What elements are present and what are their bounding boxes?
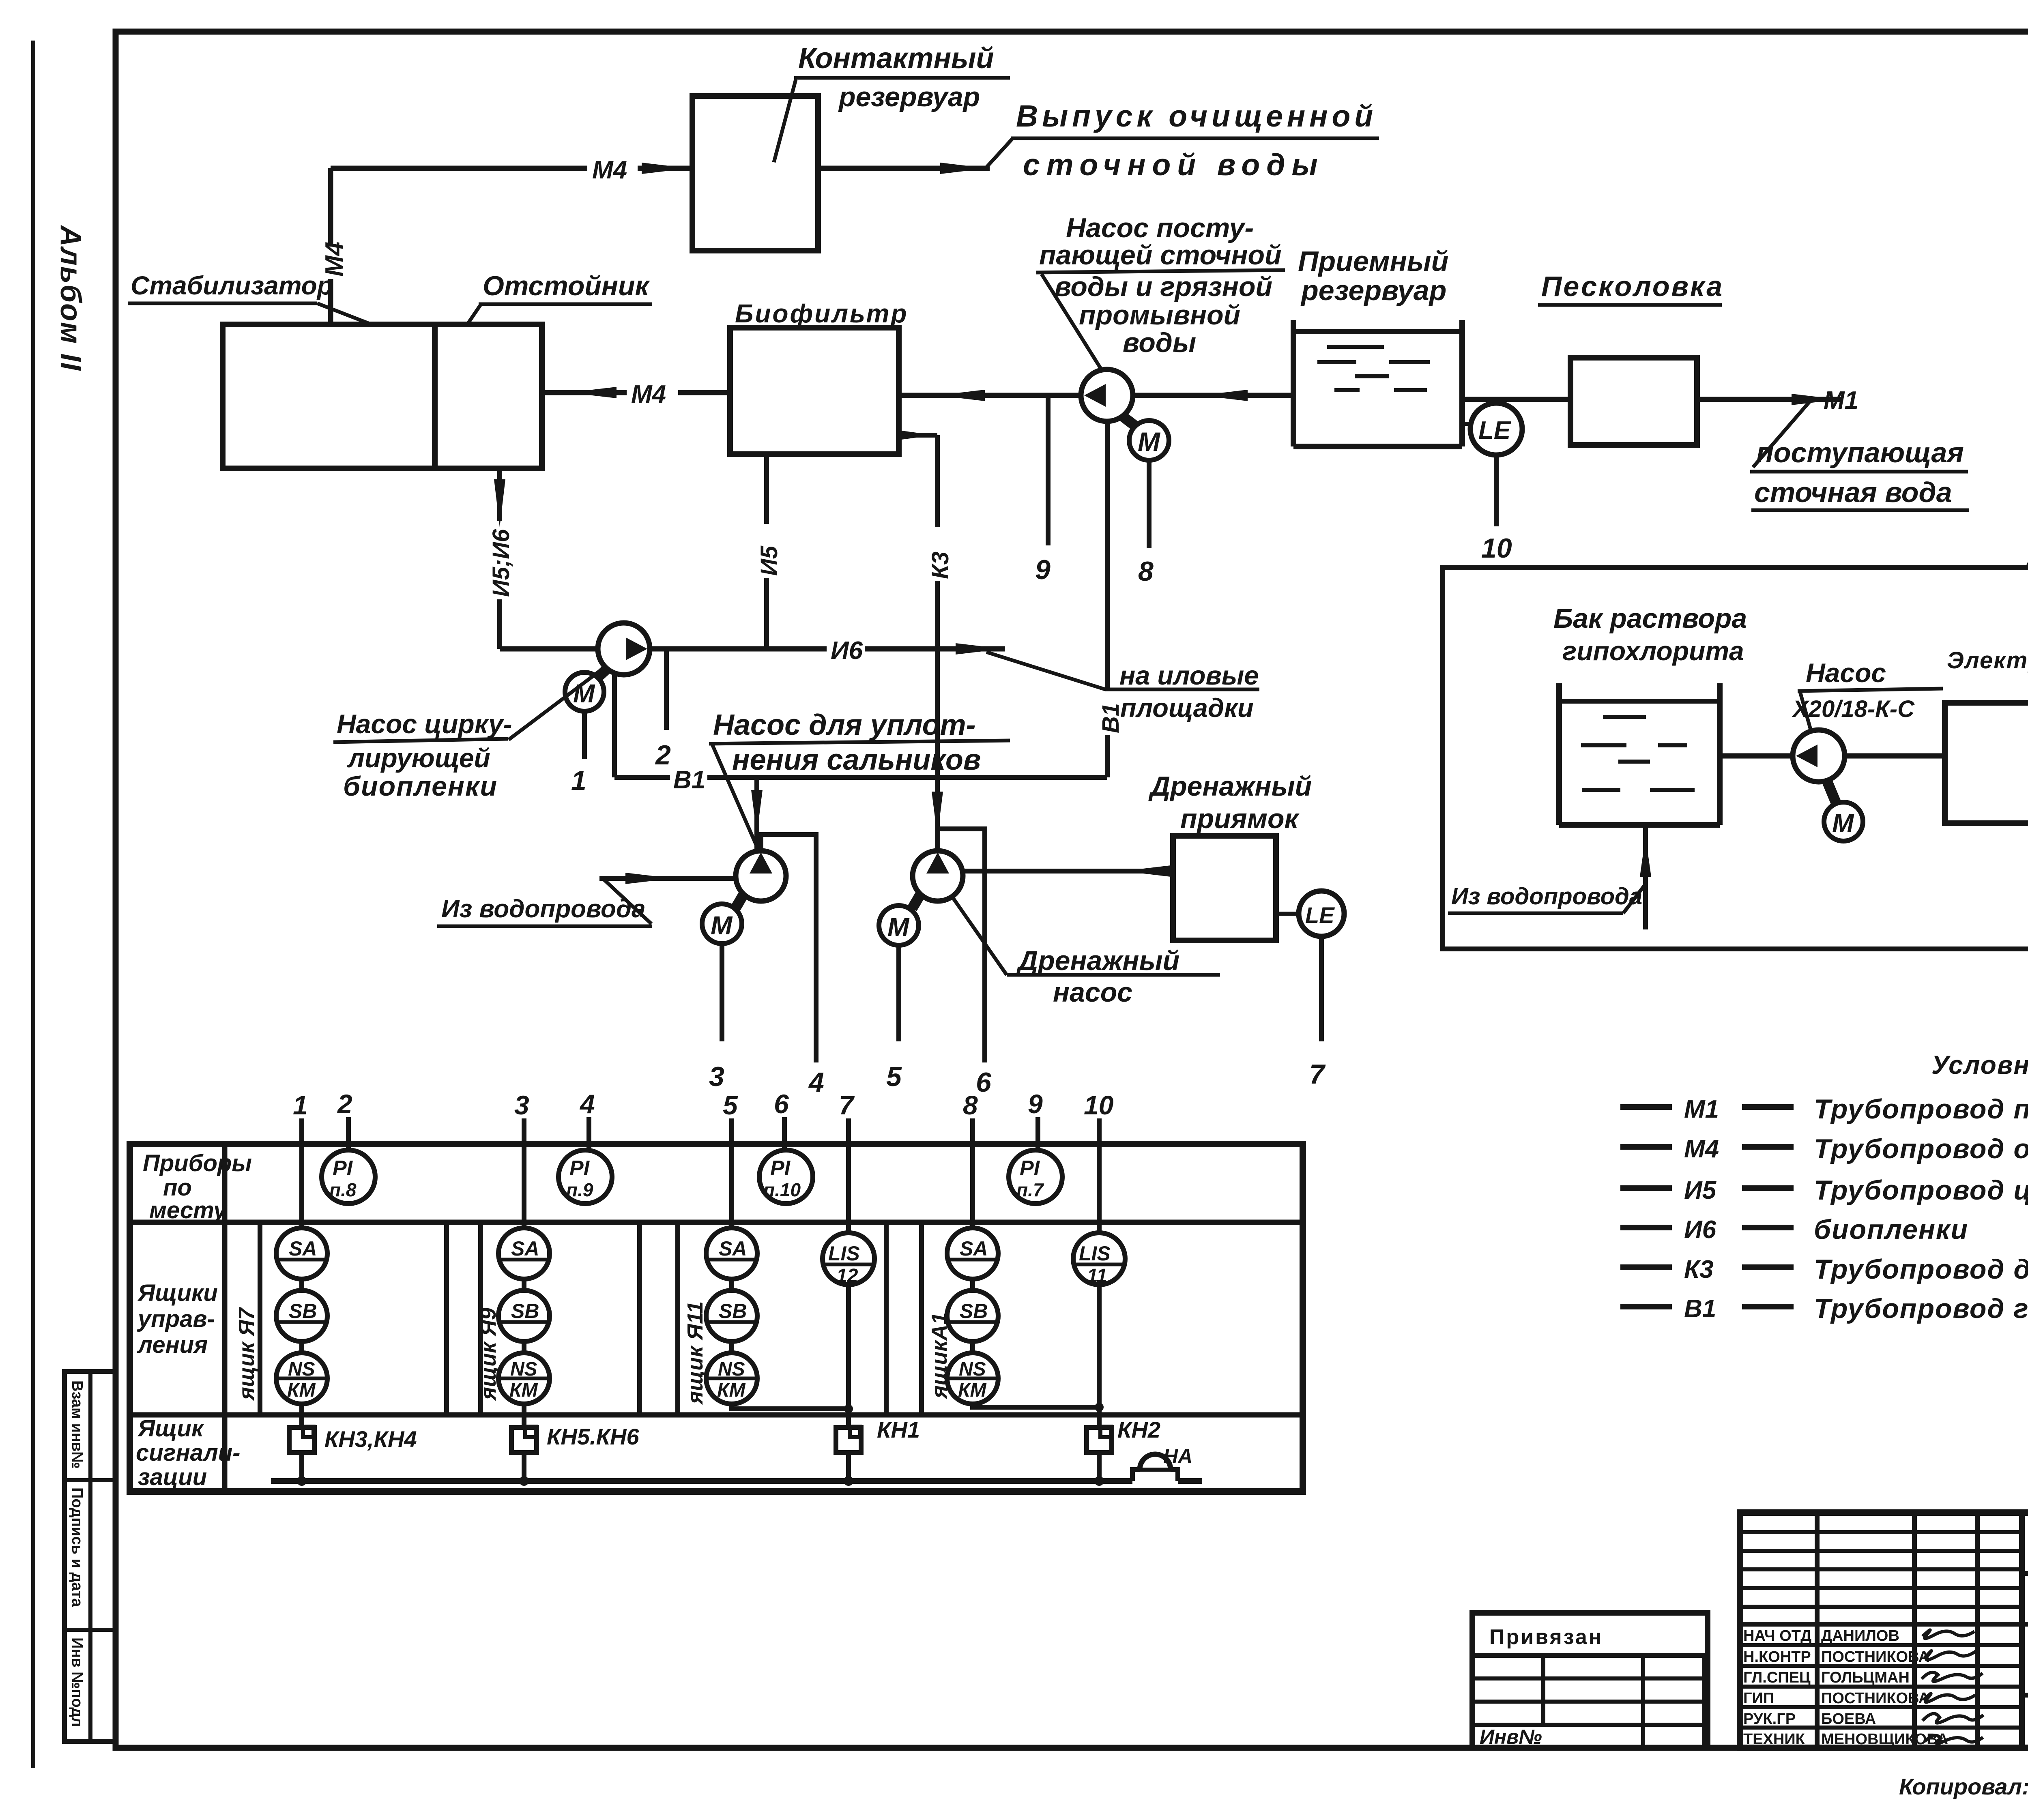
alarm relay box КН3,КН4: [289, 1427, 314, 1453]
label: на иловые площадки: [986, 652, 1105, 689]
wire biofilter to pump: [899, 393, 1081, 398]
leader to settler: [467, 304, 481, 324]
svg-text:Песколовка: Песколовка: [1541, 270, 1724, 302]
svg-text:NS: NS: [959, 1359, 986, 1380]
svg-text:Взам инв№: Взам инв№: [69, 1380, 86, 1469]
wire 1 from motor of pump N2: [582, 711, 587, 759]
svg-text:В1: В1: [1098, 703, 1124, 733]
svg-text:Дренажный: Дренажный: [1016, 945, 1179, 976]
svg-text:3: 3: [709, 1061, 724, 1092]
shaft pump N1 to motor: [1122, 416, 1136, 427]
svg-text:п.7: п.7: [1016, 1179, 1044, 1200]
svg-text:К3: К3: [1684, 1256, 1714, 1283]
level sensor LE at drainage pit: [1276, 912, 1299, 916]
svg-text:И6: И6: [831, 637, 863, 665]
svg-text:NS: NS: [510, 1359, 537, 1380]
svg-text:Бак раствора: Бак раствора: [1553, 603, 1747, 634]
wire 9 stub from main line: [1046, 395, 1051, 545]
pump N5: X20/18-K-C pump: [1793, 730, 1845, 782]
svg-text:КН2: КН2: [1117, 1417, 1160, 1442]
svg-text:SA: SA: [511, 1237, 539, 1260]
svg-text:КМ: КМ: [717, 1380, 746, 1401]
svg-text:Дренажный: Дренажный: [1148, 771, 1312, 802]
svg-text:6: 6: [774, 1089, 789, 1119]
divider stabilizer/settler: [432, 324, 438, 468]
leader to stabilizer: [317, 303, 372, 324]
svg-text:Контактный: Контактный: [798, 42, 994, 75]
instrument LIS 11: [1073, 1233, 1125, 1285]
svg-text:НА: НА: [1163, 1445, 1192, 1468]
svg-text:нения сальников: нения сальников: [732, 744, 981, 776]
alarm relay box КН1: [836, 1427, 861, 1453]
svg-text:Условные обозначения: Условные обозначения: [1931, 1050, 2028, 1080]
svg-text:SA: SA: [960, 1237, 988, 1260]
svg-text:воды и грязной: воды и грязной: [1055, 271, 1272, 302]
svg-text:SA: SA: [289, 1237, 317, 1260]
svg-text:И5: И5: [1684, 1176, 1717, 1204]
svg-text:КН1: КН1: [877, 1417, 920, 1442]
svg-text:насос: насос: [1053, 977, 1132, 1008]
svg-text:М4: М4: [1684, 1135, 1719, 1163]
tank: sand trap (peskolovka): [1570, 358, 1697, 445]
wire M1 inlet: [1697, 397, 1841, 402]
svg-text:КМ: КМ: [958, 1380, 987, 1401]
alarm relay box КН2: [1087, 1427, 1112, 1453]
legend row И5: [1620, 1185, 1672, 1191]
node row: wires 1..10 into table: [293, 1089, 1114, 1233]
signatures squiggles: [1922, 1630, 1983, 1743]
leader to pump N2: [509, 670, 601, 740]
svg-text:биопленки: биопленки: [1814, 1214, 1968, 1245]
svg-text:М: М: [887, 912, 910, 942]
control chain SA/SB/NS at x=1292: [498, 1228, 550, 1404]
wire 4 loop from pump N3 top: [761, 835, 816, 1062]
svg-text:М: М: [711, 911, 733, 940]
instrument PI p.9: [559, 1150, 612, 1204]
wire 5 from motor of pump N4: [896, 946, 901, 1041]
svg-text:Приборы: Приборы: [143, 1150, 252, 1176]
motor M of pump N5: [1824, 802, 1863, 841]
tank: drainage pit: [1173, 836, 1276, 940]
svg-text:ящик Я11: ящик Я11: [683, 1301, 707, 1405]
svg-text:Н.КОНТР: Н.КОНТР: [1743, 1648, 1811, 1665]
svg-text:7: 7: [839, 1090, 855, 1120]
svg-text:М: М: [1832, 809, 1854, 838]
svg-text:площадки: площадки: [1120, 693, 1254, 723]
svg-text:п.8: п.8: [329, 1179, 357, 1200]
svg-text:SB: SB: [289, 1300, 317, 1322]
svg-text:п.9: п.9: [566, 1179, 593, 1200]
wire К3 vertical: [935, 435, 940, 527]
tank: receiving reservoir: [1293, 320, 1462, 446]
electrolysis unit enclosure: [1443, 568, 2028, 949]
svg-text:пающей сточной: пающей сточной: [1039, 240, 1282, 270]
svg-text:КМ: КМ: [287, 1380, 316, 1401]
cabinet box Я9: [478, 1222, 483, 1415]
svg-text:Из водопровода: Из водопровода: [1451, 883, 1642, 910]
stubs boxes to bus: [299, 1453, 304, 1481]
svg-text:4: 4: [808, 1067, 824, 1098]
wire Я7 chain to alarm box: [299, 1404, 304, 1427]
svg-text:И5;И6: И5;И6: [488, 529, 514, 597]
svg-text:Альбом II: Альбом II: [54, 225, 87, 371]
wire К3 stub from biofilter: [899, 433, 937, 438]
svg-text:Насос цирку-: Насос цирку-: [337, 709, 512, 739]
motor M of pump N4: [879, 906, 919, 945]
svg-text:4: 4: [579, 1089, 595, 1119]
instrument PI p.10: [759, 1150, 813, 1204]
svg-text:PI: PI: [569, 1157, 590, 1180]
svg-text:гипохлорита: гипохлорита: [1562, 636, 1744, 666]
tank: stabilizer + settler combined: [223, 324, 542, 468]
svg-text:12: 12: [836, 1265, 858, 1287]
svg-text:Насос посту-: Насос посту-: [1066, 212, 1254, 243]
svg-text:резервуар: резервуар: [838, 82, 980, 112]
legend row М4: [1620, 1144, 1672, 1150]
svg-text:ГЛ.СПЕЦ: ГЛ.СПЕЦ: [1743, 1669, 1811, 1686]
svg-text:В1: В1: [1684, 1295, 1716, 1323]
electrolyzer box: [1945, 703, 2028, 823]
tank: hypochlorite solution tank: [1559, 683, 1720, 825]
pump N3: gland sealing pump: [736, 851, 786, 901]
svg-text:биопленки: биопленки: [343, 771, 498, 802]
svg-text:ДАНИЛОВ: ДАНИЛОВ: [1821, 1627, 1899, 1644]
svg-text:Стабилизатор: Стабилизатор: [131, 271, 333, 300]
svg-text:ПОСТНИКОВА: ПОСТНИКОВА: [1821, 1690, 1929, 1707]
wire receiving tank to sand trap: [1462, 397, 1570, 402]
svg-text:LE: LE: [1478, 416, 1511, 444]
svg-text:Привязан: Привязан: [1489, 1625, 1603, 1649]
level sensor LE at receiving reservoir: [1462, 422, 1472, 426]
wire NS KM А1 to LIS11 drop: [973, 1404, 1099, 1407]
leader to contact reservoir: [774, 79, 796, 162]
label: Дренажный насос: [952, 897, 1007, 975]
svg-text:сточная вода: сточная вода: [1754, 476, 1952, 508]
leader to pump N3: [712, 745, 758, 848]
legend row И6: [1620, 1225, 1672, 1230]
control chain SA/SB/NS at x=1804: [706, 1228, 757, 1404]
tank: contact reservoir: [692, 96, 818, 251]
svg-text:LIS: LIS: [828, 1242, 860, 1265]
arrow outlet: [940, 163, 988, 174]
svg-text:поступающая: поступающая: [1756, 437, 1964, 468]
svg-text:РУК.ГР: РУК.ГР: [1743, 1711, 1796, 1728]
svg-text:9: 9: [1035, 554, 1051, 585]
svg-text:Биофильтр: Биофильтр: [735, 299, 908, 328]
shaft pump N2 to motor: [598, 669, 607, 677]
svg-text:11: 11: [1087, 1265, 1107, 1287]
svg-text:Инв №подл: Инв №подл: [69, 1638, 86, 1727]
title block outer: [1740, 1513, 2028, 1748]
wire pump N5 to electrolyzer: [1845, 753, 1945, 759]
instrument PI p.8: [322, 1150, 375, 1204]
svg-text:2: 2: [655, 740, 671, 770]
cabinet box Я11: [675, 1222, 680, 1415]
shaft pump N3 to motor: [735, 895, 743, 908]
svg-text:2: 2: [337, 1089, 352, 1119]
svg-text:PI: PI: [770, 1157, 791, 1180]
svg-text:И5: И5: [756, 545, 782, 576]
svg-text:сточной воды: сточной воды: [1023, 148, 1324, 182]
wire 3 from motor of pump N3: [720, 944, 724, 1041]
svg-text:БОЕВА: БОЕВА: [1821, 1711, 1876, 1728]
label: поступающая сточная вода: [1753, 401, 1810, 467]
cabinet box Я7: [258, 1222, 262, 1415]
wire В1: from pump N2 down and to main pump riser: [612, 675, 617, 777]
svg-text:Трубопровод грязной промывно: Трубопровод грязной промывной воды: [1814, 1293, 2028, 1324]
wire Я9 chain to alarm box: [522, 1404, 526, 1427]
arrow И6: [956, 643, 1003, 655]
svg-text:6: 6: [976, 1067, 992, 1098]
svg-text:SB: SB: [719, 1300, 747, 1322]
svg-text:КН5.КН6: КН5.КН6: [547, 1424, 639, 1449]
svg-text:И6: И6: [1684, 1216, 1716, 1244]
outer paper edge left: [31, 41, 35, 1768]
svg-text:ГОЛЬЦМАН: ГОЛЬЦМАН: [1821, 1669, 1910, 1686]
wire M4 top horizontal: [331, 166, 587, 171]
svg-text:Инв№: Инв№: [1480, 1726, 1542, 1748]
leader to pump N1: [1042, 274, 1102, 370]
motor M of pump N1: [1129, 421, 1169, 460]
stamp column box: [64, 1371, 116, 1741]
svg-text:ящик Я7: ящик Я7: [234, 1307, 259, 1401]
svg-text:NS: NS: [288, 1359, 315, 1380]
svg-text:9: 9: [1028, 1089, 1043, 1119]
wire: treated water outlet: [818, 166, 990, 171]
svg-text:сигнали-: сигнали-: [136, 1440, 240, 1466]
svg-text:PI: PI: [333, 1157, 353, 1180]
wire tank to pump N5: [1720, 753, 1793, 759]
svg-text:5: 5: [723, 1090, 738, 1120]
wire pump N1 to receiving tank: [1132, 393, 1293, 398]
pipe: из водопровода to pump N3: [599, 876, 736, 881]
svg-text:Трубопровод циркулирующей: Трубопровод циркулирующей: [1814, 1175, 2028, 1206]
table grid: [130, 1144, 1303, 1492]
arrow toward pump N1: [1200, 390, 1248, 401]
shaft pump N4 to motor: [912, 895, 920, 908]
svg-text:п.10: п.10: [763, 1179, 801, 1200]
control chain SA/SB/NS at x=744: [276, 1228, 327, 1404]
svg-text:резервуар: резервуар: [1300, 275, 1446, 306]
instrument LIS 12: [823, 1233, 874, 1285]
title block small rows left: [1740, 1513, 2028, 1748]
wire LIS11 down: [1097, 1285, 1102, 1427]
legend row К3: [1620, 1264, 1672, 1270]
svg-text:PI: PI: [1020, 1157, 1040, 1180]
svg-text:Трубопровод дренажных вод: Трубопровод дренажных вод: [1814, 1254, 2028, 1285]
wire 10 from LE: [1494, 455, 1499, 526]
cabinet box А1: [919, 1222, 924, 1415]
leader to outlet wire: [984, 138, 1013, 170]
svg-text:Насос: Насос: [1806, 658, 1886, 688]
svg-text:промывной: промывной: [1079, 300, 1240, 331]
pipe: water supply to tank: [1643, 825, 1648, 929]
instrument PI p.7: [1009, 1150, 1062, 1204]
wire 6 loop from pump N4 top: [938, 829, 985, 1062]
svg-text:10: 10: [1481, 533, 1512, 564]
alarm relay box КН5,КН6: [511, 1427, 537, 1453]
privyazan box: [1472, 1613, 1708, 1748]
svg-text:10: 10: [1084, 1090, 1114, 1120]
svg-text:лирующей: лирующей: [347, 743, 490, 773]
svg-text:Трубопровод поступающей сточ: Трубопровод поступающей сточной воды: [1814, 1094, 2028, 1125]
svg-text:Подпись и дата: Подпись и дата: [69, 1487, 86, 1607]
svg-text:1: 1: [293, 1090, 308, 1120]
svg-text:8: 8: [963, 1090, 978, 1120]
svg-text:зации: зации: [138, 1464, 207, 1490]
wire M4 into settler: [542, 390, 627, 395]
tank: biofilter: [730, 328, 899, 454]
svg-text:SB: SB: [960, 1300, 988, 1322]
svg-text:Копировал: Коршунова: Копировал: Коршунова: [1899, 1774, 2028, 1799]
svg-text:Отстойник: Отстойник: [483, 270, 651, 301]
svg-text:воды: воды: [1123, 327, 1196, 358]
svg-text:управ-: управ-: [137, 1306, 215, 1332]
svg-text:LIS: LIS: [1079, 1242, 1111, 1265]
arrow into contact reservoir: [642, 163, 690, 174]
svg-text:Выпуск очищенной: Выпуск очищенной: [1016, 99, 1377, 133]
svg-text:ТЕХНИК: ТЕХНИК: [1743, 1731, 1805, 1748]
arrow M1: [1792, 394, 1839, 405]
svg-text:Из водопровода: Из водопровода: [441, 895, 646, 923]
svg-text:месту: месту: [149, 1197, 228, 1223]
svg-text:Ящики: Ящики: [137, 1280, 218, 1306]
wire 2 stub from И6: [664, 649, 669, 730]
svg-text:НАЧ ОТД: НАЧ ОТД: [1743, 1627, 1811, 1644]
wire В1 drop to gland pump: [754, 777, 759, 851]
svg-text:КМ: КМ: [509, 1380, 538, 1401]
svg-text:М4: М4: [592, 156, 627, 184]
svg-text:ПОСТНИКОВА: ПОСТНИКОВА: [1821, 1648, 1929, 1665]
svg-text:5: 5: [886, 1061, 902, 1092]
legend row М1: [1620, 1104, 1672, 1110]
wire drain pit to pump N4: [963, 869, 1173, 874]
wire M4 top: vertical from contact line down to stabilizer: [328, 168, 333, 247]
svg-text:К3: К3: [927, 552, 954, 579]
svg-text:Трубопровод очищенной сточно: Трубопровод очищенной сточной воды: [1814, 1133, 2028, 1164]
horn НА symbol: [1132, 1470, 1140, 1481]
svg-text:SB: SB: [511, 1300, 539, 1322]
leader to enclosure: [2027, 465, 2028, 569]
svg-text:1: 1: [571, 765, 586, 796]
svg-text:NS: NS: [718, 1359, 745, 1380]
svg-text:3: 3: [514, 1090, 529, 1120]
svg-text:8: 8: [1138, 556, 1154, 587]
pump N4: drainage pump: [913, 851, 963, 901]
signature rows: [1740, 1645, 2022, 1728]
svg-text:LE: LE: [1305, 902, 1335, 928]
legend row В1: [1620, 1304, 1672, 1309]
arrow toward biofilter: [937, 390, 985, 401]
svg-text:М1: М1: [1684, 1095, 1719, 1123]
pump N2: circulating biofilm pump: [598, 623, 650, 675]
wire И6 horizontal: [500, 646, 598, 652]
svg-text:7: 7: [1309, 1059, 1326, 1090]
svg-text:Электролизер: Электролизер: [1947, 647, 2028, 674]
motor M of pump N2: [565, 672, 604, 711]
svg-text:ления: ления: [137, 1332, 208, 1358]
wire NS KM Я11 to LIS12 drop: [732, 1404, 849, 1409]
leader to pump N5: [1800, 692, 1811, 732]
wire LIS12 down: [846, 1285, 851, 1427]
svg-text:на иловые: на иловые: [1119, 661, 1259, 690]
shaft pump N5 to motor: [1827, 781, 1836, 802]
control chain SA/SB/NS at x=2398: [947, 1228, 998, 1404]
motor M of pump N3: [702, 904, 742, 944]
svg-text:приямок: приямок: [1180, 803, 1300, 834]
svg-text:М1: М1: [1824, 386, 1858, 414]
pump N1: incoming sewage pump: [1081, 369, 1133, 421]
svg-text:Х20/18-К-С: Х20/18-К-С: [1792, 696, 1915, 722]
arrow into settler: [568, 387, 617, 398]
wire И5;И6 from settler down: [497, 468, 502, 521]
svg-text:SA: SA: [719, 1237, 747, 1260]
svg-text:Ящик: Ящик: [137, 1415, 204, 1442]
svg-text:ГИП: ГИП: [1743, 1690, 1774, 1707]
wire И5 from biofilter down: [764, 454, 769, 524]
svg-text:Приемный: Приемный: [1298, 245, 1448, 277]
alarm bus: [271, 1478, 1132, 1484]
wire 8 from motor of pump N1: [1147, 460, 1151, 548]
svg-text:М4: М4: [631, 380, 666, 408]
wire В1 riser to main pump: [1105, 421, 1110, 689]
wire 7 from LE: [1319, 936, 1324, 1041]
svg-text:М: М: [1138, 427, 1161, 457]
svg-text:КН3,КН4: КН3,КН4: [324, 1426, 417, 1452]
svg-text:В1: В1: [673, 766, 705, 794]
